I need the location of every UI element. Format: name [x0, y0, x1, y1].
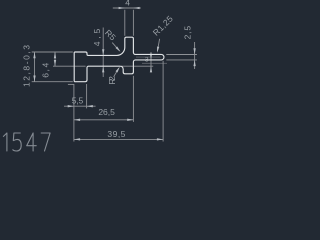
svg-text:4: 4	[125, 0, 130, 8]
svg-text:4,5: 4,5	[92, 29, 102, 47]
svg-text:39,5: 39,5	[107, 129, 125, 139]
svg-text:2,5: 2,5	[182, 26, 192, 40]
svg-text:26,5: 26,5	[98, 107, 115, 117]
svg-text:R2: R2	[107, 76, 117, 85]
svg-text:5,5: 5,5	[72, 95, 84, 105]
svg-text:6,4: 6,4	[40, 63, 50, 78]
